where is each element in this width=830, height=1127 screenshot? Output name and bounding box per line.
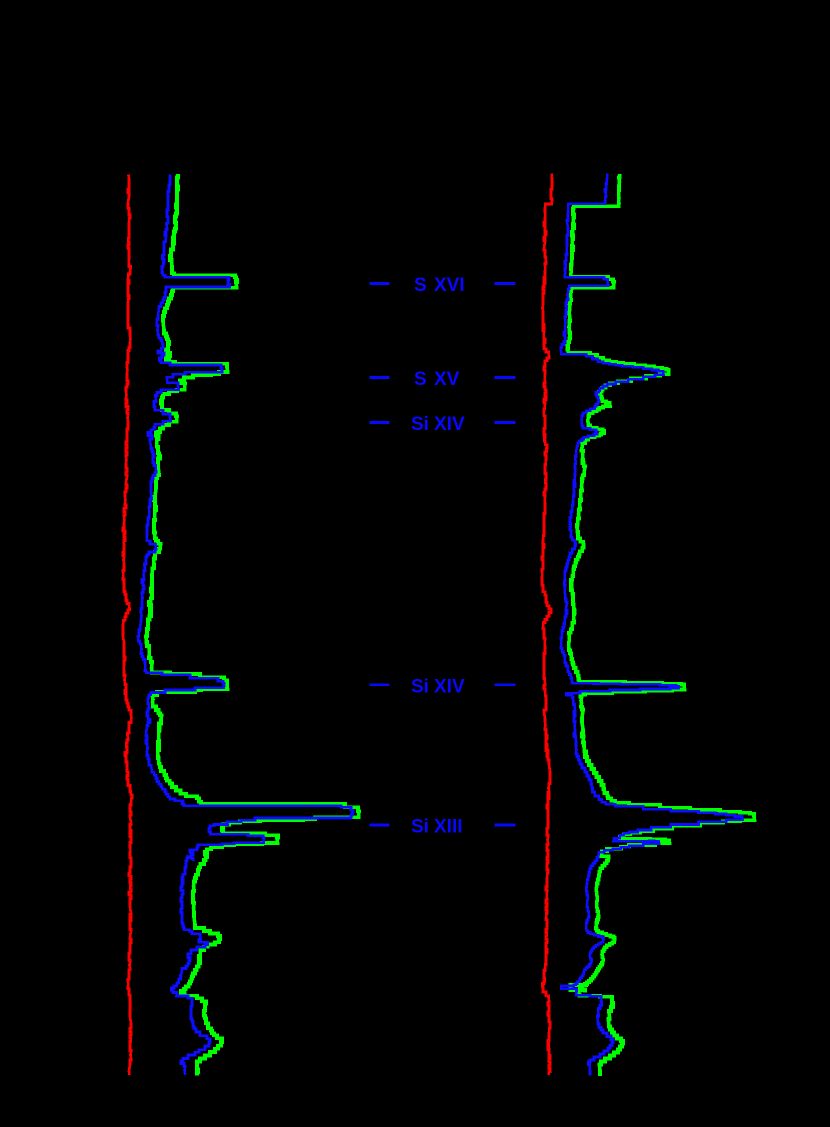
- svg-text:XV: XV: [434, 369, 460, 390]
- svg-text:XIII: XIII: [434, 817, 463, 838]
- line label Si XIV left dash: [370, 421, 390, 424]
- blue data curve, right panel: [561, 175, 743, 1074]
- line label S XVI left dash: [370, 282, 390, 285]
- line label Si XIII left dash: [370, 824, 390, 827]
- svg-text:Si: Si: [411, 676, 429, 697]
- green model curve, left panel: [146, 176, 359, 1074]
- svg-text:S: S: [414, 369, 427, 390]
- line label Si XIV right dash: [495, 421, 516, 424]
- svg-text:Si: Si: [411, 817, 429, 838]
- green model curve, right panel: [567, 176, 754, 1074]
- line label Si XIII right dash: [495, 824, 516, 827]
- svg-text:XIV: XIV: [434, 676, 465, 697]
- green blip, right panel: [571, 985, 587, 991]
- svg-text:S: S: [414, 275, 427, 296]
- line label S XV right dash: [495, 376, 516, 379]
- line label S XVI right dash: [495, 282, 516, 285]
- svg-text:XVI: XVI: [434, 275, 465, 296]
- line label Si XIV right dash: [495, 683, 516, 686]
- svg-text:XIV: XIV: [434, 414, 465, 435]
- red background line, left panel: [123, 176, 132, 1074]
- line label S XV left dash: [370, 376, 390, 379]
- red background line, right panel: [542, 175, 552, 1074]
- blue data curve, left panel: [138, 176, 353, 1074]
- svg-text:Si: Si: [411, 414, 429, 435]
- line label Si XIV left dash: [370, 683, 390, 686]
